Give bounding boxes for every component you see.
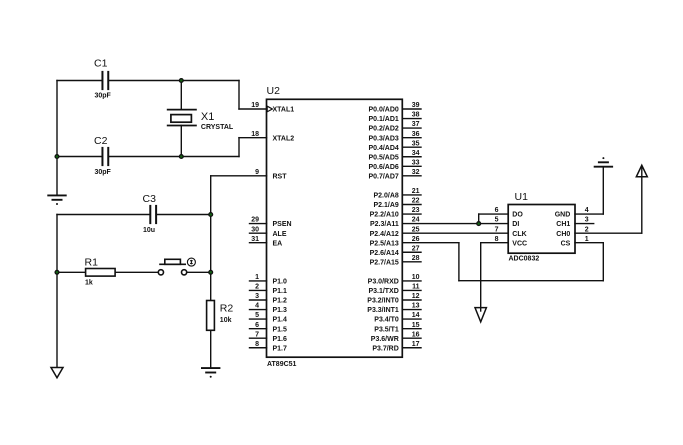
svg-text:22: 22 bbox=[412, 198, 420, 205]
svg-text:P1.6: P1.6 bbox=[273, 336, 288, 343]
svg-text:AT89C51: AT89C51 bbox=[267, 361, 297, 368]
svg-text:18: 18 bbox=[251, 131, 259, 138]
svg-text:XTAL2: XTAL2 bbox=[273, 135, 295, 142]
svg-text:23: 23 bbox=[412, 207, 420, 214]
svg-text:31: 31 bbox=[251, 236, 259, 243]
svg-text:P3.5/T1: P3.5/T1 bbox=[374, 326, 399, 333]
svg-text:R1: R1 bbox=[85, 256, 99, 268]
svg-text:1: 1 bbox=[255, 274, 259, 281]
svg-text:32: 32 bbox=[412, 169, 420, 176]
svg-text:4: 4 bbox=[585, 207, 589, 214]
svg-text:PSEN: PSEN bbox=[273, 221, 292, 228]
svg-text:R2: R2 bbox=[220, 303, 234, 315]
svg-text:U1: U1 bbox=[515, 191, 529, 203]
svg-text:10k: 10k bbox=[220, 317, 232, 324]
svg-text:35: 35 bbox=[412, 140, 420, 147]
svg-text:3: 3 bbox=[255, 293, 259, 300]
svg-text:P3.4/T0: P3.4/T0 bbox=[374, 317, 399, 324]
svg-text:30: 30 bbox=[251, 226, 259, 233]
svg-text:30pF: 30pF bbox=[95, 169, 112, 176]
svg-text:CLK: CLK bbox=[512, 231, 526, 238]
svg-text:ADC0832: ADC0832 bbox=[509, 256, 540, 263]
svg-text:P3.6/WR: P3.6/WR bbox=[371, 336, 399, 343]
svg-text:5: 5 bbox=[495, 217, 499, 224]
svg-text:P3.3/INT1: P3.3/INT1 bbox=[367, 307, 399, 314]
svg-text:36: 36 bbox=[412, 131, 420, 138]
svg-text:34: 34 bbox=[412, 150, 420, 157]
svg-text:14: 14 bbox=[412, 312, 420, 319]
svg-text:CH0: CH0 bbox=[556, 231, 570, 238]
svg-text:GND: GND bbox=[555, 212, 571, 219]
svg-text:1: 1 bbox=[585, 236, 589, 243]
svg-text:P2.7/A15: P2.7/A15 bbox=[370, 259, 399, 266]
svg-text:7: 7 bbox=[255, 331, 259, 338]
svg-text:VCC: VCC bbox=[512, 240, 527, 247]
svg-text:P0.2/AD2: P0.2/AD2 bbox=[368, 126, 398, 133]
svg-text:26: 26 bbox=[412, 236, 420, 243]
svg-text:8: 8 bbox=[495, 236, 499, 243]
svg-text:4: 4 bbox=[255, 303, 259, 310]
svg-text:P0.1/AD1: P0.1/AD1 bbox=[368, 116, 398, 123]
svg-text:17: 17 bbox=[412, 341, 420, 348]
svg-text:EA: EA bbox=[273, 240, 283, 247]
svg-text:5: 5 bbox=[255, 312, 259, 319]
svg-text:P0.0/AD0: P0.0/AD0 bbox=[368, 107, 398, 114]
svg-text:24: 24 bbox=[412, 217, 420, 224]
svg-text:U2: U2 bbox=[267, 85, 281, 97]
svg-text:C3: C3 bbox=[143, 193, 157, 205]
svg-text:DI: DI bbox=[512, 221, 519, 228]
svg-text:P2.1/A9: P2.1/A9 bbox=[374, 202, 399, 209]
svg-text:37: 37 bbox=[412, 121, 420, 128]
svg-text:P0.5/AD5: P0.5/AD5 bbox=[368, 154, 398, 161]
svg-text:P1.3: P1.3 bbox=[273, 307, 288, 314]
svg-text:P3.0/RXD: P3.0/RXD bbox=[368, 279, 399, 286]
svg-text:X1: X1 bbox=[201, 111, 214, 123]
svg-text:6: 6 bbox=[255, 322, 259, 329]
svg-text:P2.4/A12: P2.4/A12 bbox=[370, 231, 399, 238]
svg-text:XTAL1: XTAL1 bbox=[273, 107, 295, 114]
svg-text:3: 3 bbox=[585, 217, 589, 224]
svg-text:13: 13 bbox=[412, 303, 420, 310]
svg-text:38: 38 bbox=[412, 112, 420, 119]
svg-text:10u: 10u bbox=[143, 227, 155, 234]
svg-text:7: 7 bbox=[495, 226, 499, 233]
svg-text:P2.0/A8: P2.0/A8 bbox=[374, 193, 399, 200]
svg-text:P1.2: P1.2 bbox=[273, 298, 288, 305]
svg-text:P3.1/TXD: P3.1/TXD bbox=[368, 288, 398, 295]
svg-text:12: 12 bbox=[412, 293, 420, 300]
svg-text:P0.4/AD4: P0.4/AD4 bbox=[368, 145, 398, 152]
svg-text:ALE: ALE bbox=[273, 231, 287, 238]
svg-text:8: 8 bbox=[255, 341, 259, 348]
svg-text:27: 27 bbox=[412, 245, 420, 252]
svg-text:29: 29 bbox=[251, 217, 259, 224]
svg-text:39: 39 bbox=[412, 102, 420, 109]
svg-text:P1.7: P1.7 bbox=[273, 345, 288, 352]
svg-text:P1.1: P1.1 bbox=[273, 288, 288, 295]
svg-text:P0.7/AD7: P0.7/AD7 bbox=[368, 173, 398, 180]
svg-text:C1: C1 bbox=[94, 58, 108, 70]
svg-text:P0.6/AD6: P0.6/AD6 bbox=[368, 164, 398, 171]
svg-text:6: 6 bbox=[495, 207, 499, 214]
svg-text:P1.5: P1.5 bbox=[273, 326, 288, 333]
svg-text:P0.3/AD3: P0.3/AD3 bbox=[368, 135, 398, 142]
svg-text:P1.0: P1.0 bbox=[273, 279, 288, 286]
svg-text:CRYSTAL: CRYSTAL bbox=[201, 124, 234, 131]
svg-text:C2: C2 bbox=[94, 135, 108, 147]
svg-text:DO: DO bbox=[512, 212, 523, 219]
svg-text:30pF: 30pF bbox=[95, 93, 112, 100]
svg-text:P2.6/A14: P2.6/A14 bbox=[370, 250, 399, 257]
svg-text:CS: CS bbox=[561, 240, 571, 247]
svg-text:2: 2 bbox=[255, 284, 259, 291]
svg-text:25: 25 bbox=[412, 226, 420, 233]
svg-text:33: 33 bbox=[412, 159, 420, 166]
svg-text:P2.2/A10: P2.2/A10 bbox=[370, 212, 399, 219]
svg-text:P3.2/INT0: P3.2/INT0 bbox=[367, 298, 399, 305]
svg-text:1k: 1k bbox=[85, 280, 93, 287]
svg-text:11: 11 bbox=[412, 284, 420, 291]
svg-text:19: 19 bbox=[251, 102, 259, 109]
svg-text:10: 10 bbox=[412, 274, 420, 281]
svg-text:P1.4: P1.4 bbox=[273, 317, 288, 324]
svg-text:15: 15 bbox=[412, 322, 420, 329]
svg-text:9: 9 bbox=[255, 169, 259, 176]
svg-text:RST: RST bbox=[273, 173, 288, 180]
svg-text:16: 16 bbox=[412, 331, 420, 338]
svg-text:P2.3/A11: P2.3/A11 bbox=[370, 221, 399, 228]
svg-text:P3.7/RD: P3.7/RD bbox=[372, 345, 398, 352]
svg-text:P2.5/A13: P2.5/A13 bbox=[370, 240, 399, 247]
svg-text:28: 28 bbox=[412, 255, 420, 262]
svg-text:21: 21 bbox=[412, 188, 420, 195]
svg-text:2: 2 bbox=[585, 226, 589, 233]
svg-text:CH1: CH1 bbox=[556, 221, 570, 228]
